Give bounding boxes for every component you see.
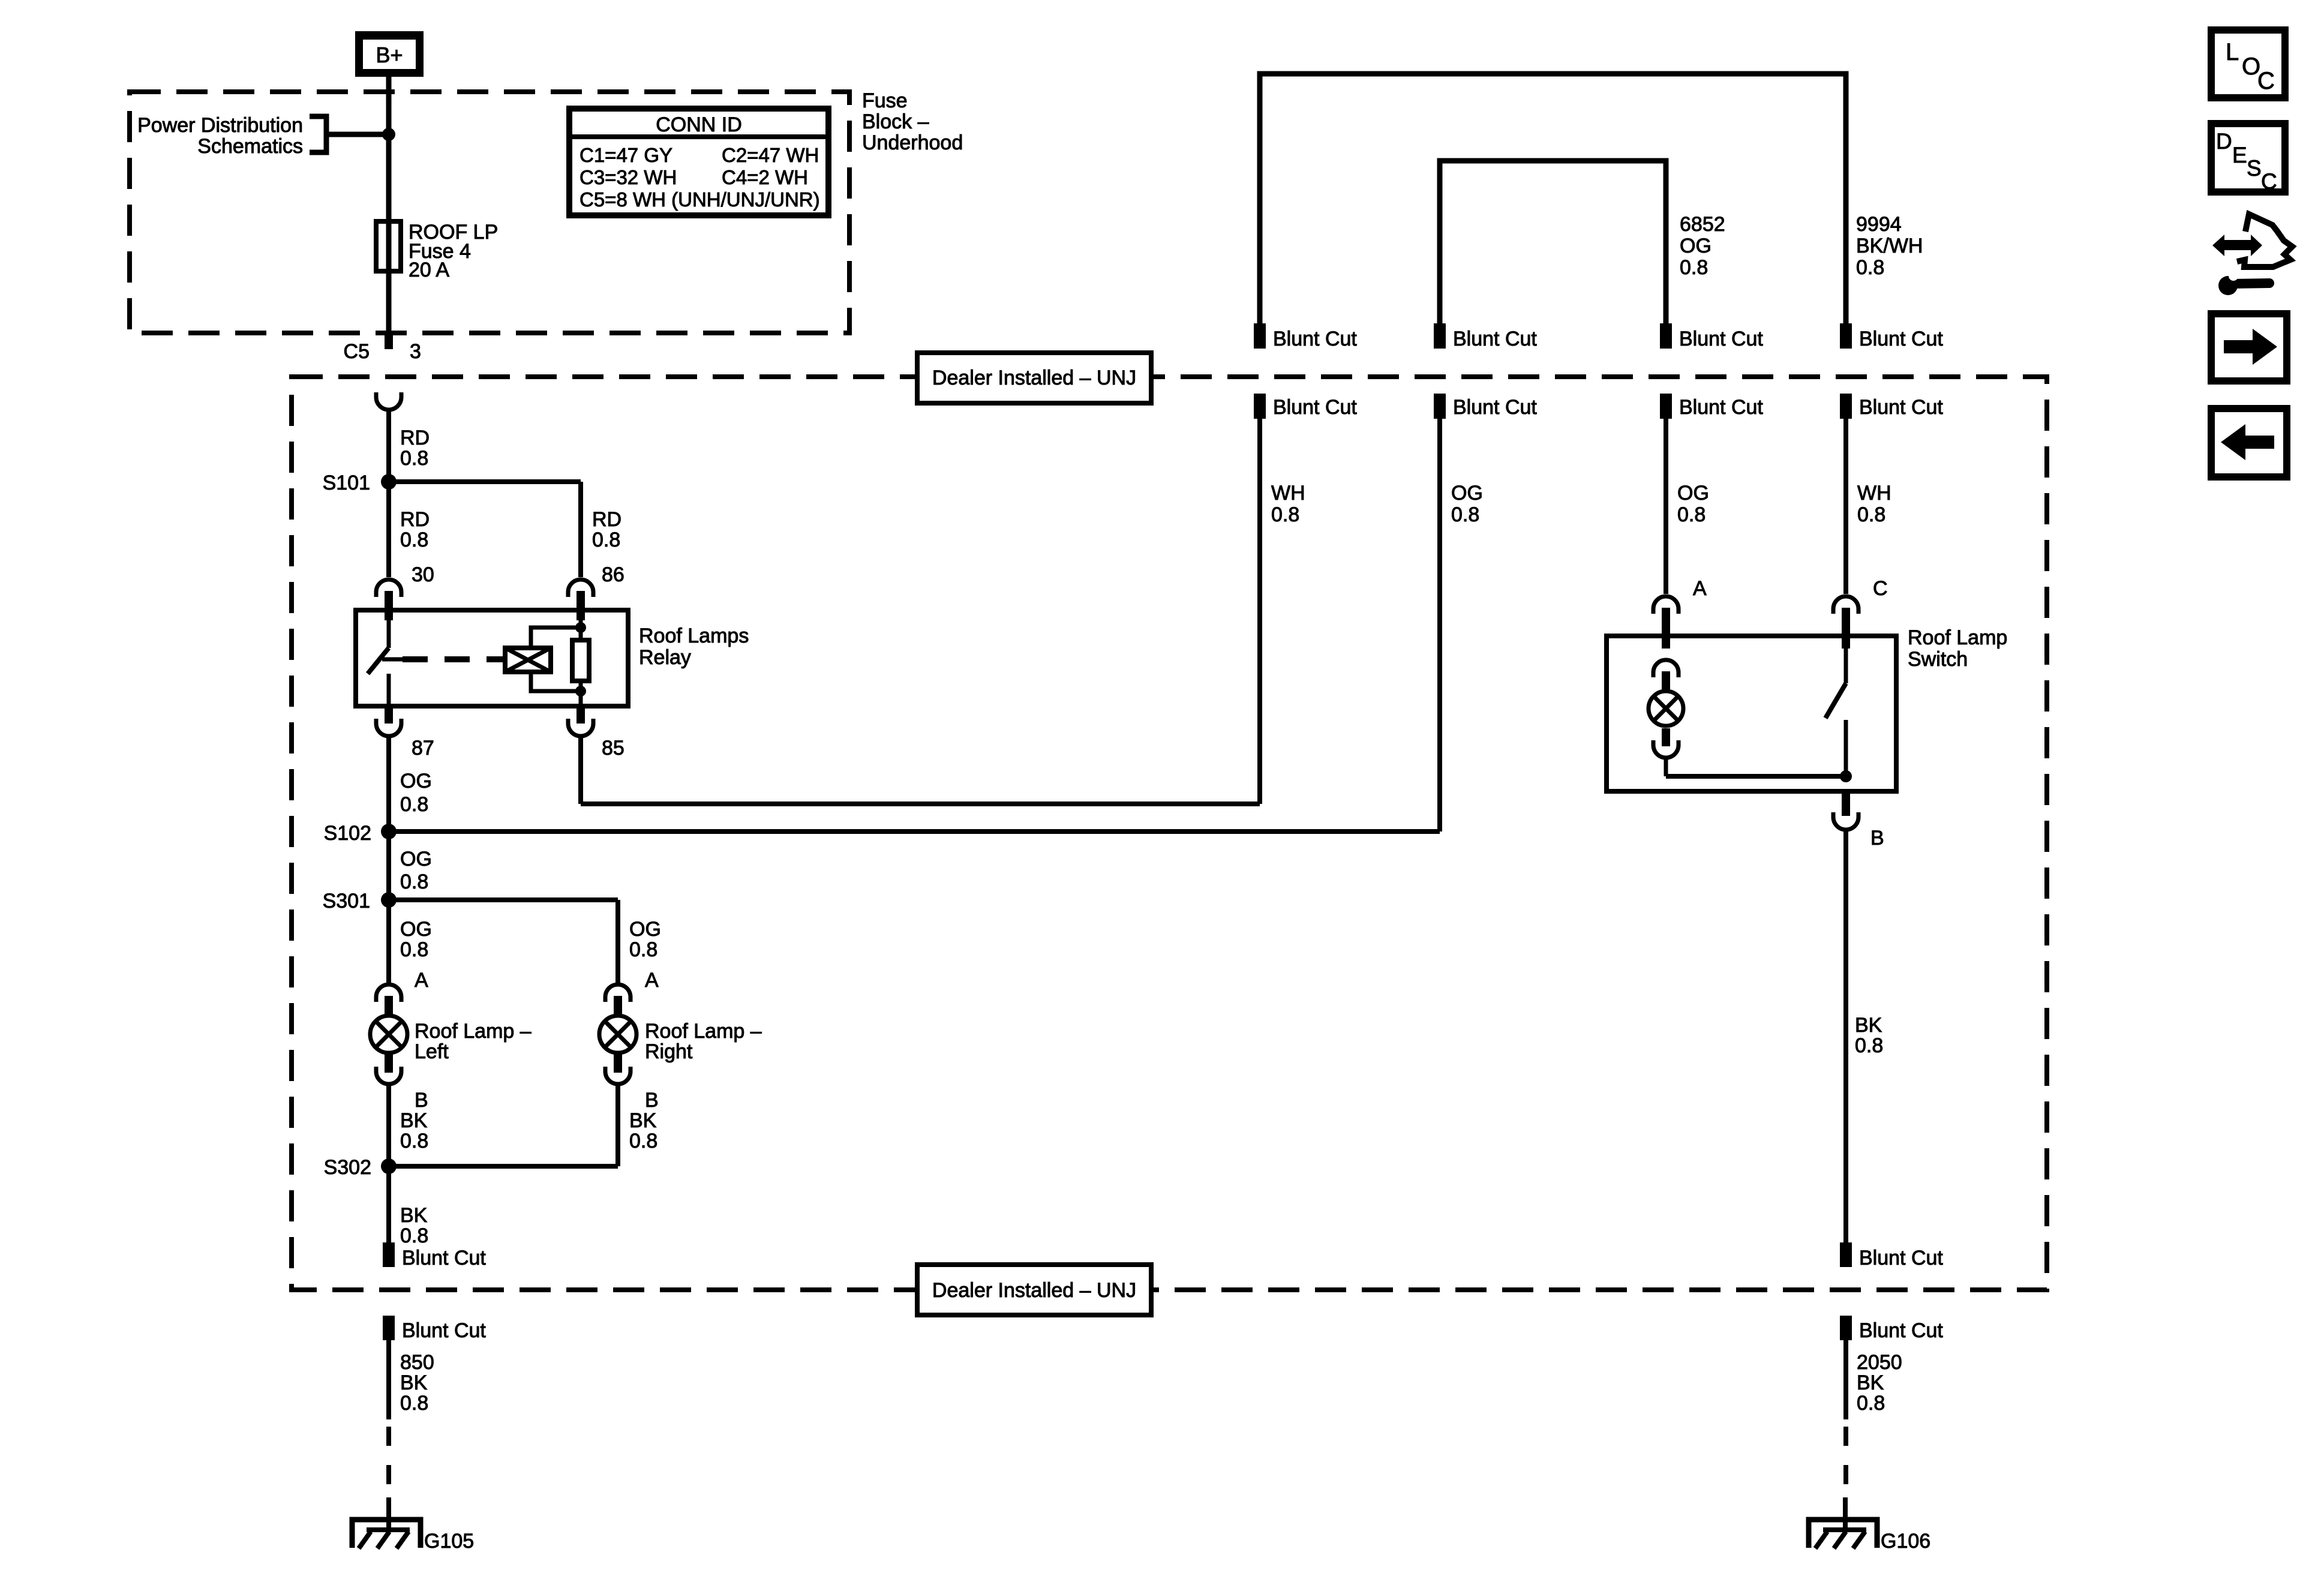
svg-text:Blunt Cut: Blunt Cut <box>1453 396 1537 419</box>
svg-text:Blunt Cut: Blunt Cut <box>1453 328 1537 350</box>
svg-text:0.8: 0.8 <box>400 870 428 893</box>
svg-text:Roof Lamps: Roof Lamps <box>639 625 749 647</box>
svg-text:C: C <box>2261 169 2277 194</box>
svg-text:CONN ID: CONN ID <box>656 113 742 136</box>
svg-text:BK: BK <box>1857 1371 1884 1394</box>
svg-text:0.8: 0.8 <box>400 529 428 551</box>
svg-text:C4=2 WH: C4=2 WH <box>722 166 808 188</box>
svg-text:0.8: 0.8 <box>400 1224 428 1247</box>
svg-text:C1=47 GY: C1=47 GY <box>580 144 672 166</box>
svg-text:0.8: 0.8 <box>1857 503 1885 526</box>
svg-text:Dealer Installed – UNJ: Dealer Installed – UNJ <box>932 1279 1136 1302</box>
svg-text:C3=32 WH: C3=32 WH <box>580 166 677 188</box>
svg-text:OG: OG <box>629 918 661 941</box>
svg-text:86: 86 <box>602 563 624 586</box>
svg-text:E: E <box>2232 143 2247 167</box>
svg-text:Right: Right <box>645 1040 693 1063</box>
svg-text:0.8: 0.8 <box>400 1392 428 1415</box>
svg-text:BK: BK <box>400 1371 428 1394</box>
svg-text:Blunt Cut: Blunt Cut <box>402 1247 486 1269</box>
svg-text:D: D <box>2216 129 2232 154</box>
svg-text:RD: RD <box>400 427 430 449</box>
svg-text:0.8: 0.8 <box>629 938 657 961</box>
svg-text:G105: G105 <box>424 1530 474 1553</box>
svg-text:85: 85 <box>602 737 624 760</box>
svg-text:0.8: 0.8 <box>1271 503 1299 526</box>
svg-text:A: A <box>415 969 428 992</box>
svg-text:S302: S302 <box>324 1156 371 1179</box>
svg-text:B: B <box>1870 827 1884 849</box>
svg-text:Blunt Cut: Blunt Cut <box>1273 396 1357 419</box>
svg-text:RD: RD <box>592 508 621 531</box>
svg-text:B: B <box>645 1089 659 1112</box>
svg-text:C5=8 WH (UNH/UNJ/UNR): C5=8 WH (UNH/UNJ/UNR) <box>580 188 820 211</box>
svg-text:0.8: 0.8 <box>1856 256 1884 279</box>
svg-text:0.8: 0.8 <box>1677 503 1706 526</box>
svg-text:Left: Left <box>415 1040 449 1063</box>
svg-text:OG: OG <box>400 918 432 941</box>
svg-text:0.8: 0.8 <box>629 1130 657 1152</box>
svg-text:850: 850 <box>400 1351 434 1374</box>
svg-text:RD: RD <box>400 508 430 531</box>
svg-text:Schematics: Schematics <box>197 135 303 158</box>
svg-text:BK: BK <box>629 1109 657 1132</box>
svg-text:Roof Lamp –: Roof Lamp – <box>415 1020 532 1043</box>
svg-text:0.8: 0.8 <box>1857 1392 1885 1415</box>
svg-text:OG: OG <box>1451 482 1483 505</box>
svg-text:C2=47 WH: C2=47 WH <box>722 144 819 166</box>
svg-text:C: C <box>1873 577 1888 600</box>
svg-text:S101: S101 <box>323 472 370 494</box>
svg-text:Power Distribution: Power Distribution <box>137 114 303 137</box>
svg-text:Blunt Cut: Blunt Cut <box>1679 328 1763 350</box>
svg-text:Relay: Relay <box>639 646 691 669</box>
svg-text:Switch: Switch <box>1908 648 1968 671</box>
svg-text:Underhood: Underhood <box>862 131 963 154</box>
svg-text:0.8: 0.8 <box>1451 503 1479 526</box>
svg-text:0.8: 0.8 <box>400 1130 428 1152</box>
svg-text:S: S <box>2247 156 2262 181</box>
svg-text:9994: 9994 <box>1856 213 1902 236</box>
svg-text:Dealer Installed – UNJ: Dealer Installed – UNJ <box>932 367 1136 389</box>
svg-text:OG: OG <box>1677 482 1709 505</box>
svg-text:S102: S102 <box>324 822 371 845</box>
svg-text:Blunt Cut: Blunt Cut <box>1859 1319 1943 1342</box>
svg-text:30: 30 <box>412 563 434 586</box>
svg-text:Block –: Block – <box>862 110 929 133</box>
svg-text:BK: BK <box>400 1109 428 1132</box>
svg-text:WH: WH <box>1857 482 1891 505</box>
svg-text:Blunt Cut: Blunt Cut <box>402 1319 486 1342</box>
svg-text:A: A <box>1693 577 1707 600</box>
svg-text:0.8: 0.8 <box>400 938 428 961</box>
svg-text:0.8: 0.8 <box>400 447 428 470</box>
svg-text:Fuse: Fuse <box>862 89 908 112</box>
svg-text:0.8: 0.8 <box>400 793 428 816</box>
svg-text:A: A <box>645 969 659 992</box>
svg-text:Roof Lamp: Roof Lamp <box>1908 626 2007 649</box>
svg-text:L: L <box>2226 39 2239 65</box>
svg-text:Blunt Cut: Blunt Cut <box>1679 396 1763 419</box>
svg-text:G106: G106 <box>1881 1530 1930 1553</box>
svg-text:0.8: 0.8 <box>1680 256 1708 279</box>
svg-text:C: C <box>2257 68 2275 94</box>
svg-text:Blunt Cut: Blunt Cut <box>1859 1247 1943 1269</box>
svg-text:Blunt Cut: Blunt Cut <box>1859 396 1943 419</box>
svg-text:OG: OG <box>400 770 432 792</box>
svg-text:3: 3 <box>410 340 421 363</box>
svg-text:OG: OG <box>1680 235 1712 257</box>
svg-text:2050: 2050 <box>1857 1351 1902 1374</box>
svg-text:20 A: 20 A <box>409 259 449 281</box>
svg-text:OG: OG <box>400 848 432 870</box>
svg-text:BK/WH: BK/WH <box>1856 235 1923 257</box>
svg-text:Roof Lamp –: Roof Lamp – <box>645 1020 762 1043</box>
svg-text:C5: C5 <box>344 340 370 363</box>
svg-text:WH: WH <box>1271 482 1305 505</box>
svg-text:B+: B+ <box>376 43 403 67</box>
svg-text:BK: BK <box>1855 1014 1882 1037</box>
svg-text:0.8: 0.8 <box>1855 1034 1883 1057</box>
svg-text:87: 87 <box>412 737 434 760</box>
svg-text:S301: S301 <box>323 890 370 912</box>
svg-text:B: B <box>415 1089 428 1112</box>
svg-text:BK: BK <box>400 1204 428 1227</box>
svg-text:Blunt Cut: Blunt Cut <box>1273 328 1357 350</box>
svg-text:Blunt Cut: Blunt Cut <box>1859 328 1943 350</box>
svg-text:6852: 6852 <box>1680 213 1725 236</box>
svg-text:0.8: 0.8 <box>592 529 620 551</box>
